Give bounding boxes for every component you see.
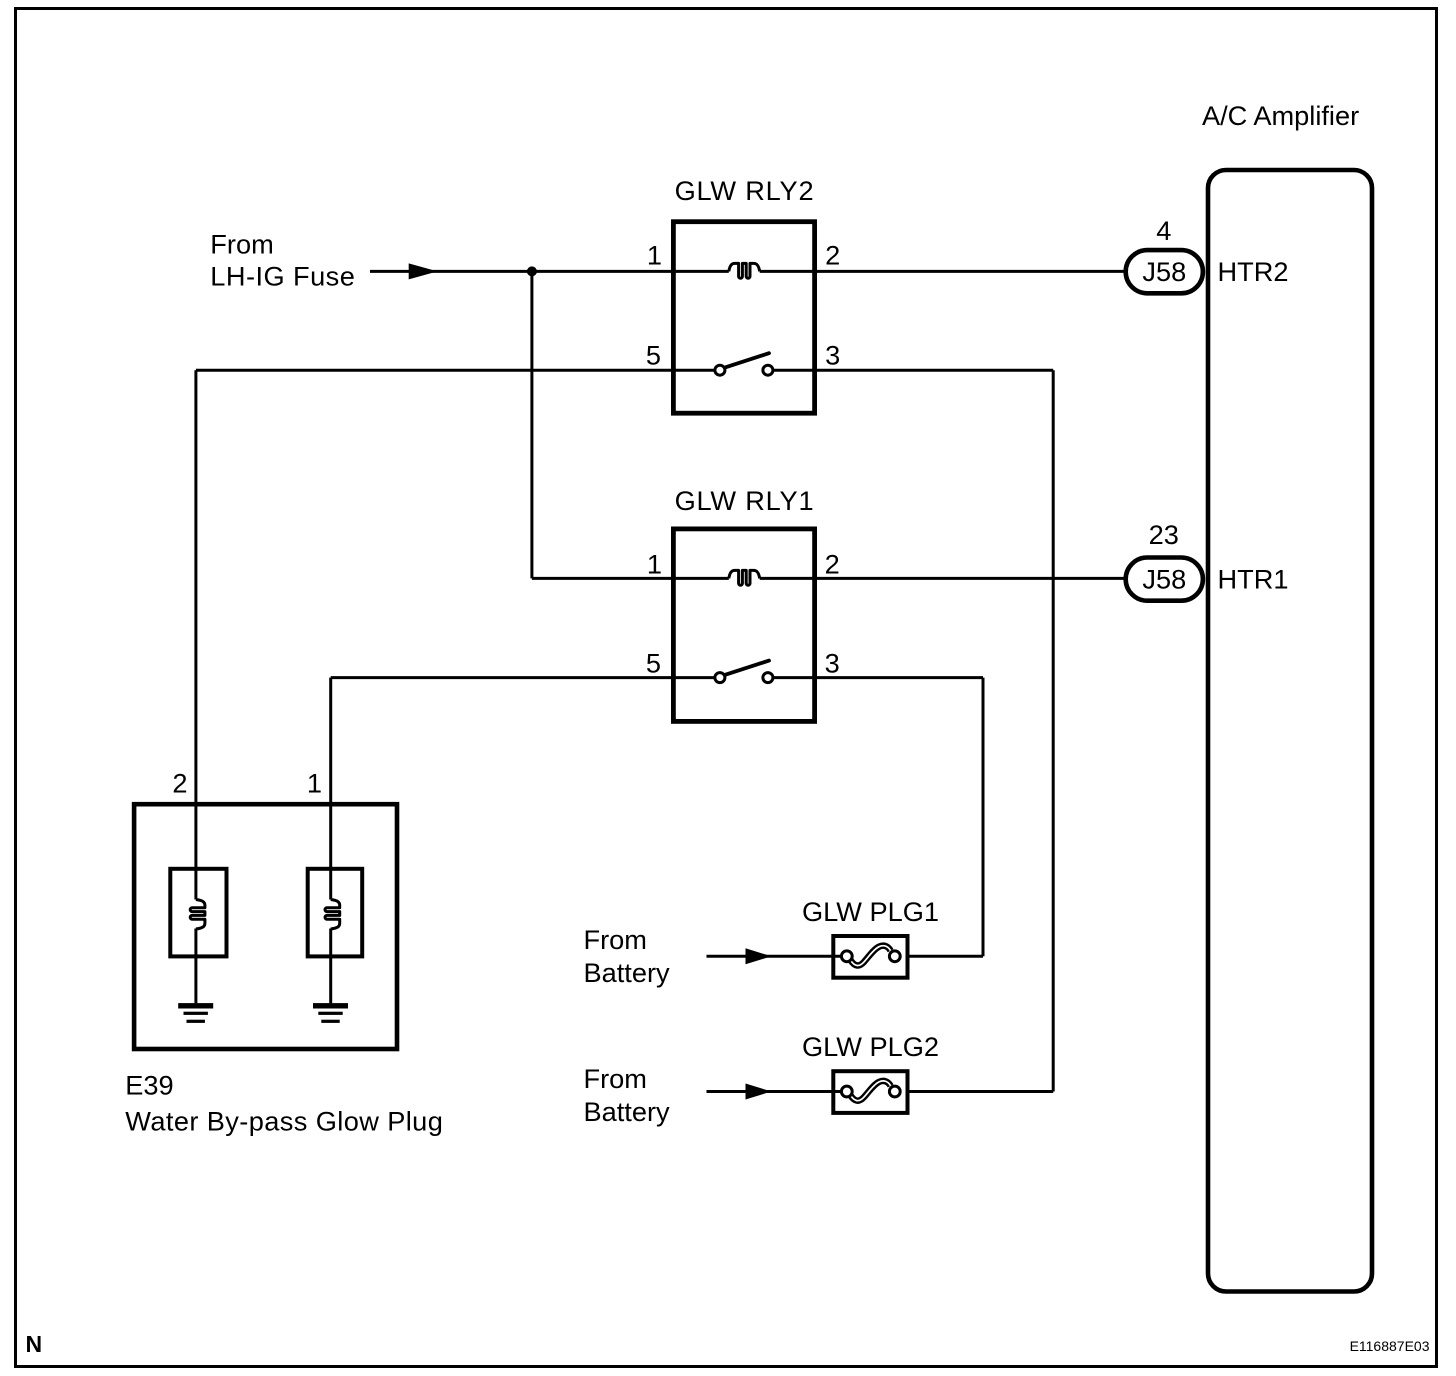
svg-text:GLW PLG1: GLW PLG1 — [802, 896, 939, 927]
svg-text:5: 5 — [646, 648, 661, 679]
svg-text:HTR2: HTR2 — [1218, 256, 1289, 287]
svg-text:Battery: Battery — [584, 1096, 671, 1127]
svg-text:1: 1 — [307, 767, 322, 798]
svg-text:5: 5 — [646, 339, 661, 370]
svg-text:1: 1 — [647, 548, 662, 579]
svg-text:From: From — [210, 229, 273, 260]
svg-text:GLW RLY1: GLW RLY1 — [675, 485, 815, 516]
svg-text:HTR1: HTR1 — [1218, 563, 1289, 594]
svg-text:2: 2 — [172, 767, 187, 798]
svg-text:GLW PLG2: GLW PLG2 — [802, 1031, 939, 1062]
svg-text:From: From — [584, 924, 647, 955]
svg-text:J58: J58 — [1142, 564, 1186, 595]
svg-text:J58: J58 — [1142, 256, 1186, 287]
svg-text:Battery: Battery — [584, 957, 671, 988]
svg-text:2: 2 — [825, 239, 840, 270]
svg-text:2: 2 — [825, 548, 840, 579]
svg-text:GLW RLY2: GLW RLY2 — [675, 175, 815, 206]
svg-text:A/C Amplifier: A/C Amplifier — [1202, 100, 1359, 131]
svg-text:23: 23 — [1149, 519, 1179, 550]
svg-text:Water By-pass Glow Plug: Water By-pass Glow Plug — [125, 1106, 443, 1137]
svg-text:N: N — [26, 1331, 43, 1357]
svg-text:E116887E03: E116887E03 — [1350, 1338, 1430, 1354]
svg-text:3: 3 — [825, 648, 840, 679]
svg-text:1: 1 — [647, 239, 662, 270]
svg-text:From: From — [584, 1063, 647, 1094]
svg-text:LH-IG Fuse: LH-IG Fuse — [210, 260, 355, 291]
svg-text:4: 4 — [1156, 215, 1171, 246]
svg-text:3: 3 — [825, 339, 840, 370]
svg-text:E39: E39 — [125, 1070, 173, 1101]
